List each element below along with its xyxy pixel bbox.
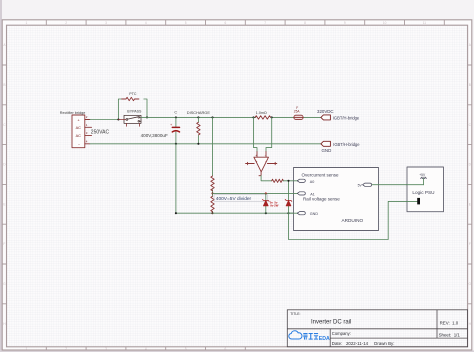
- svg-text:3: 3: [105, 21, 107, 25]
- fuse F 25A: [294, 106, 304, 120]
- svg-text:6: 6: [225, 21, 227, 25]
- junction opamp left tap: [252, 116, 254, 118]
- title block: [287, 310, 467, 347]
- svg-text:+: +: [255, 153, 257, 157]
- junction A0/zener2: [287, 180, 289, 182]
- junction divider tap: [211, 192, 213, 194]
- junction divider bottom: [211, 212, 213, 214]
- divider note box: [214, 195, 267, 202]
- wire top rail relay to shunt: [141, 116, 321, 118]
- wire PTC loop left: [118, 99, 121, 120]
- svg-text:400V,3800uF: 400V,3800uF: [141, 133, 168, 138]
- wire 5V inside Logic PSU: [407, 184, 424, 186]
- resistor series A0: [272, 179, 284, 182]
- wire sense ground rail: [213, 212, 299, 214]
- zener D1 5v1: [263, 193, 270, 213]
- svg-text:1: 1: [26, 21, 28, 25]
- wire opamp input right: [266, 117, 272, 151]
- junction capacitor bottom: [175, 143, 177, 145]
- svg-text:2: 2: [65, 347, 67, 351]
- resistor divider R upper: [211, 176, 214, 191]
- wire PTC loop right: [144, 99, 147, 117]
- wire A1 tap to arduino: [213, 192, 299, 194]
- port IGBT/H-bridge (GND): [321, 141, 331, 146]
- +5V power flag: [419, 173, 426, 185]
- svg-text:F: F: [469, 242, 471, 246]
- svg-text:REV: 1.0: REV: 1.0: [440, 321, 459, 326]
- zener D2 5v1: [285, 181, 292, 213]
- svg-text:Date: 2022-11-14 Drawn B: Date: 2022-11-14 Drawn By:: [332, 341, 395, 346]
- port IGBT/H-bridge (DC+): [321, 115, 331, 120]
- pin A1: [297, 192, 315, 197]
- svg-text:10: 10: [383, 21, 387, 25]
- wire to A0 pin: [283, 180, 298, 182]
- svg-text:IGBT/H-bridge: IGBT/H-bridge: [333, 142, 360, 147]
- svg-text:1.0mΩ: 1.0mΩ: [256, 111, 267, 115]
- wire divider branch: [212, 117, 214, 213]
- svg-text:-: -: [265, 153, 266, 157]
- svg-text:3: 3: [105, 347, 107, 351]
- svg-text:ARDUINO: ARDUINO: [342, 218, 364, 223]
- svg-text:25A: 25A: [294, 110, 301, 114]
- wire opamp output: [261, 176, 272, 181]
- svg-text:A0: A0: [310, 180, 315, 184]
- junction zener1 top: [265, 192, 267, 194]
- junction discharge top: [197, 116, 199, 118]
- svg-text:Sheet: 1/1: Sheet: 1/1: [439, 333, 461, 338]
- wire gnd inside Logic PSU: [407, 200, 418, 202]
- window edge strips: [0, 0, 2, 352]
- svg-text:Logic PSU: Logic PSU: [412, 190, 435, 195]
- capacitor C 400V,3800uF: [170, 117, 180, 143]
- svg-text:5V: 5V: [358, 183, 363, 187]
- wire gnd down and to logic psu: [289, 201, 418, 239]
- svg-text:Inverter DC rail: Inverter DC rail: [311, 319, 351, 325]
- svg-text:PTC: PTC: [129, 92, 137, 96]
- rectifier pin 4 (-): [85, 139, 90, 144]
- EasyEDA logo: [289, 331, 330, 342]
- svg-text:F: F: [3, 242, 5, 246]
- svg-text:-: -: [265, 159, 266, 163]
- svg-text:8: 8: [304, 21, 306, 25]
- svg-text:5: 5: [185, 21, 187, 25]
- svg-text:4: 4: [145, 21, 147, 25]
- svg-text:1: 1: [26, 347, 28, 351]
- resistor divider R lower: [211, 196, 214, 211]
- svg-text:+: +: [256, 159, 258, 163]
- svg-text:B: B: [469, 83, 471, 87]
- svg-text:+5V: +5V: [419, 173, 426, 177]
- svg-text:Rail voltage sense: Rail voltage sense: [303, 197, 340, 202]
- wire opamp input left: [254, 117, 258, 151]
- svg-text:9: 9: [344, 21, 346, 25]
- resistor PTC: [122, 97, 139, 100]
- junction divider top: [211, 116, 213, 118]
- svg-text:AC: AC: [76, 126, 82, 130]
- svg-text:400V=5V divider: 400V=5V divider: [216, 196, 252, 202]
- pin GND: [297, 212, 318, 217]
- svg-text:9v 2W: 9v 2W: [270, 203, 278, 207]
- svg-text:4: 4: [145, 347, 147, 351]
- svg-text:EDA: EDA: [319, 336, 330, 342]
- svg-text:Company:: Company:: [332, 331, 351, 336]
- junction PTC right: [146, 116, 148, 118]
- wire + rail from bridge to relay: [90, 119, 119, 121]
- wire cap bottom to sense ground rail: [176, 144, 213, 213]
- junction discharge bottom: [197, 143, 199, 145]
- ARDUINO block U2: [294, 168, 379, 231]
- svg-text:5: 5: [185, 347, 187, 351]
- svg-text:7: 7: [264, 21, 266, 25]
- svg-text:TITLE:: TITLE:: [290, 312, 300, 316]
- resistor DISCHARGE: [197, 117, 200, 143]
- junction gnd rail right: [287, 212, 289, 214]
- junction zener1 bottom: [265, 212, 267, 214]
- rectifier pin 3 (AC): [85, 131, 92, 135]
- rectifier pin 2 (+): [85, 115, 90, 119]
- ground bar: [417, 198, 420, 205]
- svg-text:BYPASS: BYPASS: [127, 110, 142, 114]
- pin 5V: [358, 183, 372, 187]
- relay BYPASS: [118, 115, 141, 126]
- wire bottom rail: [90, 143, 321, 145]
- svg-text:AC: AC: [76, 134, 82, 138]
- junction opamp right tap: [271, 116, 273, 118]
- wire pin stubs inside ARDUINO: [294, 181, 299, 213]
- op-amp U1: [246, 152, 277, 176]
- svg-text:11: 11: [423, 21, 427, 25]
- svg-text:E: E: [469, 202, 471, 206]
- svg-text:6: 6: [225, 347, 227, 351]
- svg-text:DISCHARGE: DISCHARGE: [187, 110, 211, 115]
- svg-text:Rectifier bridge: Rectifier bridge: [60, 111, 86, 115]
- wire 5V to logic psu: [372, 184, 423, 186]
- rectifier pin 1 (AC): [85, 123, 92, 127]
- svg-text:250VAC: 250VAC: [91, 130, 110, 136]
- svg-text:Overcurrent sense: Overcurrent sense: [302, 173, 340, 178]
- wire gnd pin: [289, 212, 299, 214]
- Logic PSU block: [407, 167, 444, 212]
- svg-text:IGBT/H-bridge: IGBT/H-bridge: [333, 115, 360, 120]
- pin A0: [297, 179, 314, 184]
- svg-text:GND: GND: [322, 148, 332, 153]
- svg-text:C: C: [174, 110, 177, 114]
- junction corner: [175, 212, 177, 214]
- svg-text:2: 2: [65, 21, 67, 25]
- svg-text:320VDC: 320VDC: [317, 109, 334, 114]
- rectifier bridge B1: [72, 115, 85, 148]
- resistor shunt: [255, 116, 271, 119]
- junction PTC left: [117, 118, 119, 120]
- svg-text:GND: GND: [310, 212, 319, 216]
- junction capacitor top: [175, 116, 177, 118]
- svg-text:B: B: [3, 83, 5, 87]
- svg-text:E: E: [3, 202, 5, 206]
